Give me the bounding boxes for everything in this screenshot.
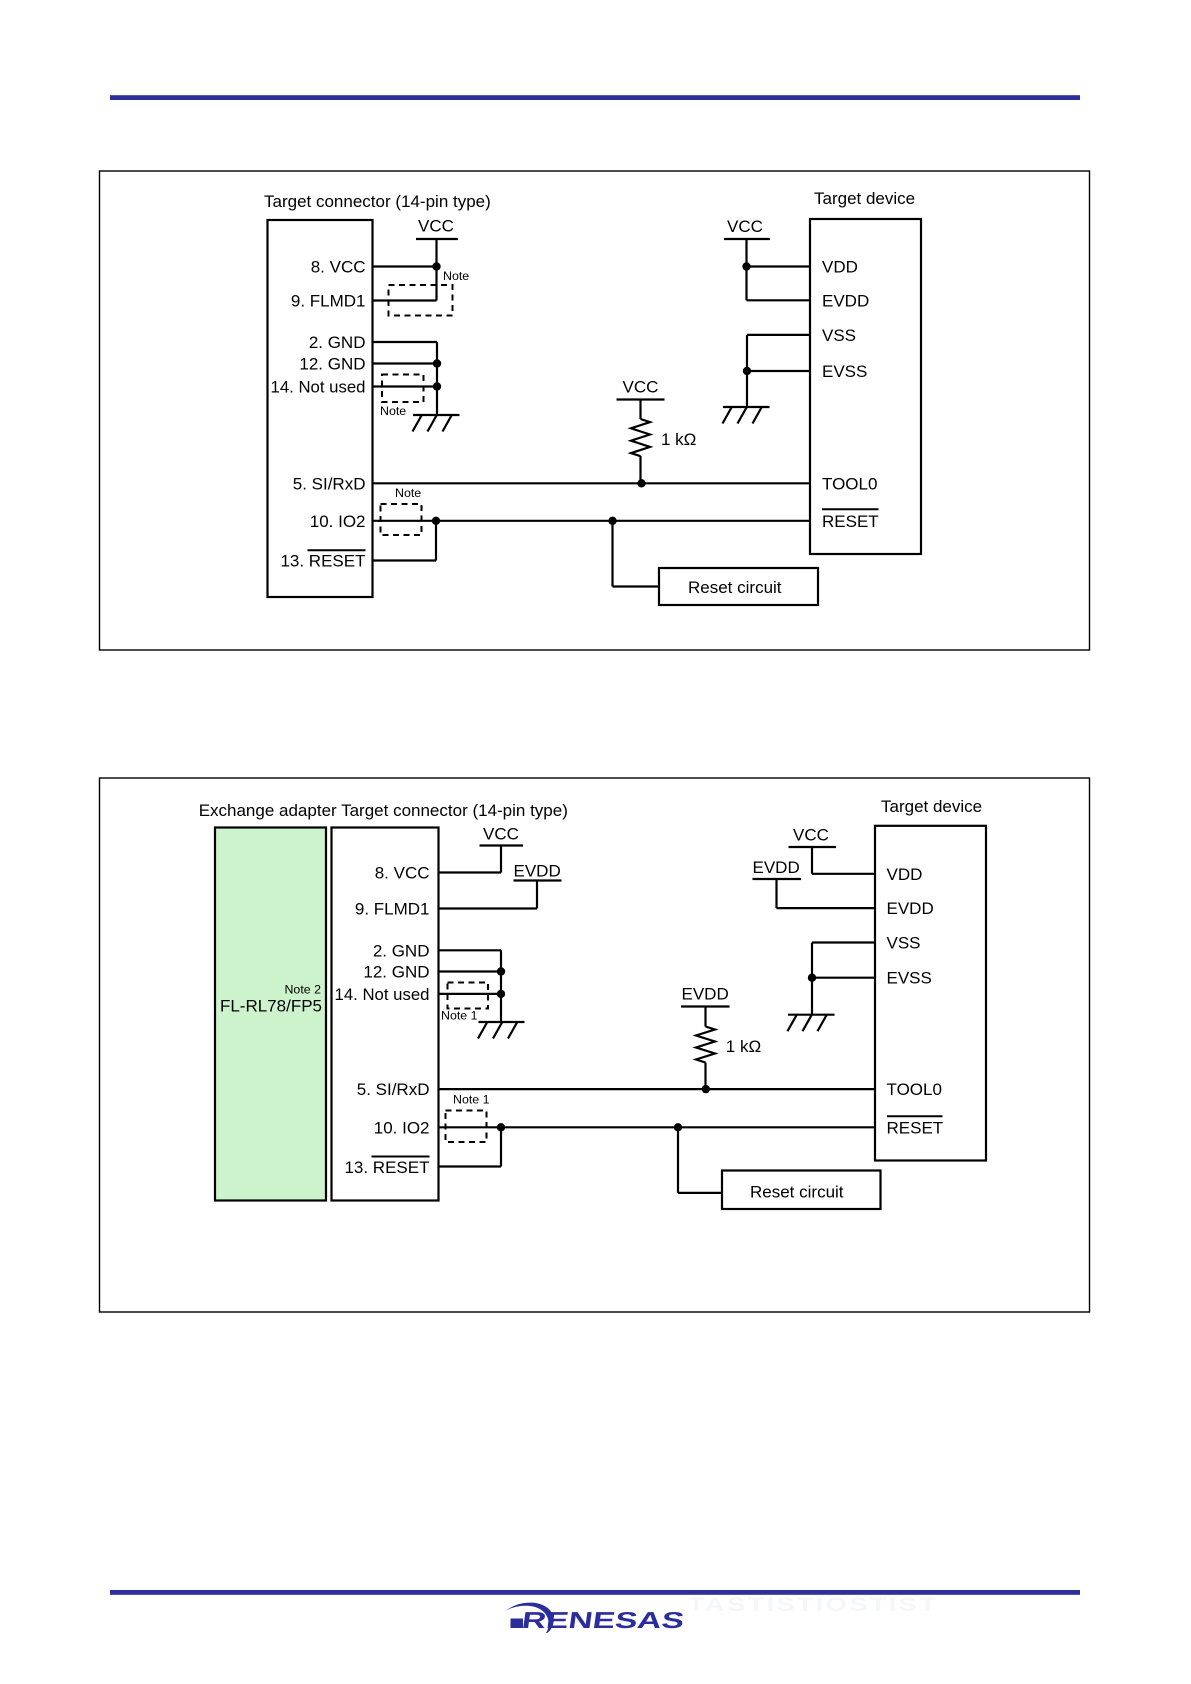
svg-text:Note 1: Note 1 [453,1093,490,1107]
svg-text:EVSS: EVSS [822,362,867,381]
svg-text:1 kΩ: 1 kΩ [661,430,696,449]
svg-text:VCC: VCC [623,378,659,397]
svg-text:TOOL0: TOOL0 [887,1080,942,1099]
svg-text:2. GND: 2. GND [309,333,366,352]
svg-text:EVDD: EVDD [753,858,800,877]
svg-text:VCC: VCC [727,217,763,236]
svg-text:Target connector (14-pin type): Target connector (14-pin type) [264,192,491,211]
svg-text:13. RESET: 13. RESET [280,552,365,571]
svg-text:5. SI/RxD: 5. SI/RxD [293,474,366,493]
svg-text:5. SI/RxD: 5. SI/RxD [357,1080,430,1099]
svg-text:VCC: VCC [793,826,829,845]
svg-text:Target device: Target device [814,189,915,208]
svg-text:RENESAS: RENESAS [520,1607,686,1633]
svg-text:FL-RL78/FP5: FL-RL78/FP5 [220,997,322,1016]
svg-text:Note 1: Note 1 [441,1009,478,1023]
svg-text:EVDD: EVDD [514,862,561,881]
svg-text:1 kΩ: 1 kΩ [726,1037,761,1056]
svg-text:TASTISTIOSTIST: TASTISTIOSTIST [688,1595,938,1616]
svg-text:RESET: RESET [887,1118,944,1137]
svg-text:Note 2: Note 2 [284,983,321,997]
svg-text:RESET: RESET [822,512,879,531]
svg-text:TOOL0: TOOL0 [822,474,877,493]
svg-text:13. RESET: 13. RESET [344,1158,429,1177]
svg-text:2. GND: 2. GND [373,941,430,960]
svg-text:Note: Note [443,269,469,283]
svg-text:VCC: VCC [418,217,454,236]
svg-text:VCC: VCC [483,825,519,844]
svg-text:VDD: VDD [887,865,923,884]
svg-text:EVDD: EVDD [822,291,869,310]
svg-text:8. VCC: 8. VCC [311,258,366,277]
svg-text:Reset circuit: Reset circuit [688,578,782,597]
svg-text:EVSS: EVSS [887,969,932,988]
svg-text:Note: Note [395,486,421,500]
svg-text:8. VCC: 8. VCC [375,864,430,883]
svg-text:14. Not used: 14. Not used [271,378,366,397]
svg-text:Reset circuit: Reset circuit [750,1183,844,1202]
svg-text:Note: Note [380,404,406,418]
svg-text:VSS: VSS [887,934,921,953]
svg-text:10. IO2: 10. IO2 [310,512,366,531]
svg-text:EVDD: EVDD [887,899,934,918]
svg-text:12. GND: 12. GND [299,355,365,374]
svg-text:VSS: VSS [822,326,856,345]
svg-text:14. Not used: 14. Not used [335,985,430,1004]
svg-text:9. FLMD1: 9. FLMD1 [355,900,430,919]
svg-text:EVDD: EVDD [682,985,729,1004]
svg-text:Exchange adapter Target connec: Exchange adapter Target connector (14-pi… [199,801,568,820]
svg-text:12. GND: 12. GND [363,963,429,982]
svg-text:VDD: VDD [822,258,858,277]
svg-text:Target device: Target device [881,797,982,816]
svg-text:10. IO2: 10. IO2 [374,1118,430,1137]
svg-text:9. FLMD1: 9. FLMD1 [291,292,366,311]
